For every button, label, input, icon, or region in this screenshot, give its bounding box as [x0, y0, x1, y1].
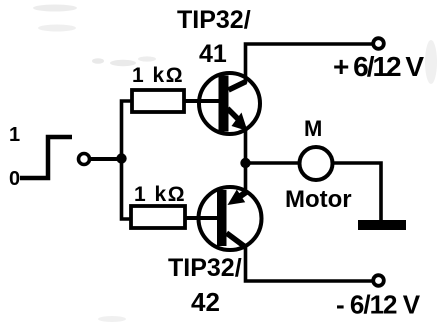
terminal -V (open circle): [373, 275, 384, 286]
motor M1 (circle): [300, 147, 333, 180]
svg-text:+ 6/12 V: + 6/12 V: [333, 51, 424, 82]
wire R2 to Q2 base: [185, 216, 220, 220]
wire Q1 emitter down to node B: [244, 127, 248, 164]
transistor Q1 TIP32/41 (NPN, top): [199, 73, 260, 134]
svg-text:- 6/12 V: - 6/12 V: [336, 290, 421, 320]
svg-text:1 kΩ: 1 kΩ: [132, 64, 184, 87]
node IN: input step waveform symbol: [20, 137, 72, 178]
svg-text:41: 41: [199, 40, 227, 68]
input terminal (open circle): [79, 154, 90, 165]
wire node B to motor: [246, 161, 300, 165]
svg-text:M: M: [304, 116, 322, 141]
svg-text:0: 0: [9, 168, 20, 190]
svg-text:TIP32/: TIP32/: [168, 254, 242, 282]
resistor R2 1 kOhm (bottom): [131, 206, 185, 228]
wire input terminal to node A: [90, 157, 121, 161]
resistor R1 1 kOhm (top): [132, 90, 184, 112]
wire node B to Q2 emitter: [244, 163, 248, 193]
node B junction dot: [240, 158, 250, 168]
svg-text:TIP32/: TIP32/: [177, 6, 251, 34]
svg-text:1: 1: [9, 124, 20, 146]
transistor Q2 TIP32/42 (PNP, bottom): [199, 187, 262, 250]
svg-text:42: 42: [191, 287, 220, 317]
wire Q2 collector to -V rail: [246, 247, 373, 281]
ground symbol: [358, 220, 406, 230]
svg-text:1 kΩ: 1 kΩ: [134, 183, 186, 206]
wire node A up to R1 and down to R2: [122, 101, 133, 219]
wire motor to ground: [334, 163, 381, 221]
node A junction dot: [116, 153, 126, 163]
wire R1 to Q1 base: [184, 99, 220, 103]
wire Q1 collector to +V rail: [246, 44, 373, 83]
terminal +V (open circle): [373, 38, 384, 49]
svg-text:Motor: Motor: [285, 186, 352, 213]
